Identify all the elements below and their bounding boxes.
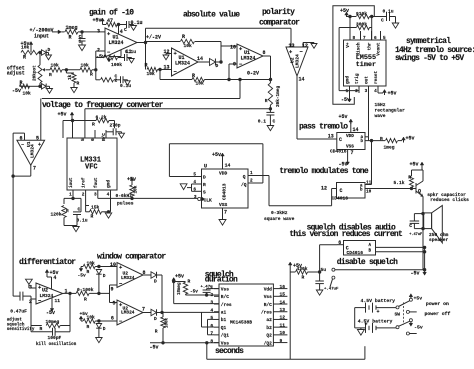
svg-text:+5v: +5v [93, 18, 102, 24]
svg-text:C: C [409, 223, 412, 229]
svg-text:10k: 10k [51, 63, 60, 69]
svg-text:8: 8 [143, 270, 146, 276]
svg-text:duration: duration [205, 275, 238, 284]
svg-text:100pF: 100pF [48, 335, 62, 341]
svg-text:0.1u: 0.1u [125, 49, 136, 55]
svg-text:U: U [204, 164, 207, 170]
svg-text:1: 1 [65, 288, 68, 294]
svg-text:2: 2 [82, 193, 85, 198]
svg-text:-5v: -5v [78, 273, 87, 279]
svg-text:0.1u: 0.1u [77, 218, 88, 224]
svg-text:7: 7 [33, 166, 36, 172]
svg-text:10k: 10k [87, 261, 96, 267]
svg-text:6: 6 [210, 323, 213, 329]
svg-text:270p: 270p [110, 123, 121, 129]
svg-text:D: D [48, 47, 51, 53]
svg-text:Q2: Q2 [266, 333, 272, 339]
svg-text:rectangular: rectangular [375, 107, 406, 113]
svg-text:squelch: squelch [7, 322, 25, 327]
svg-text:R: R [302, 274, 305, 280]
svg-text:0-2V: 0-2V [247, 71, 259, 77]
svg-text:R/C: R/C [221, 294, 229, 300]
svg-text:12: 12 [280, 315, 286, 321]
svg-text:b2: b2 [266, 325, 272, 331]
svg-text:thr: thr [368, 42, 373, 50]
svg-text:D: D [154, 316, 157, 322]
svg-text:gain of -10: gain of -10 [89, 9, 134, 18]
svg-text:+5v: +5v [339, 114, 348, 120]
svg-text:Vss: Vss [221, 286, 229, 292]
svg-text:20kpot: 20kpot [33, 65, 38, 81]
svg-text:10k: 10k [81, 63, 90, 69]
svg-text:C: C [78, 207, 81, 213]
svg-text:trig: trig [355, 73, 360, 84]
svg-text:+5v: +5v [175, 274, 184, 280]
svg-text:12: 12 [321, 186, 327, 192]
svg-text:2: 2 [29, 299, 32, 305]
svg-text:300k: 300k [356, 22, 367, 28]
svg-text:3: 3 [29, 284, 32, 290]
svg-text:13: 13 [163, 65, 169, 71]
svg-text:-5v: -5v [150, 345, 159, 351]
svg-text:2: 2 [355, 89, 358, 94]
svg-text:R: R [77, 81, 80, 87]
svg-text:R: R [380, 136, 383, 142]
svg-text:3: 3 [194, 195, 197, 200]
svg-text:−: − [21, 142, 24, 148]
svg-text:Vss: Vss [221, 340, 229, 346]
svg-text:R: R [203, 182, 206, 188]
svg-text:R/C: R/C [102, 133, 107, 141]
svg-text:13: 13 [328, 133, 334, 139]
svg-text:CD4016: CD4016 [330, 149, 347, 155]
svg-text:0.1u: 0.1u [120, 83, 131, 89]
svg-text:R: R [84, 296, 87, 302]
svg-text:5: 5 [383, 36, 386, 41]
svg-text:square wave: square wave [264, 217, 295, 222]
svg-text:disable squelch: disable squelch [337, 258, 398, 267]
svg-text:R: R [90, 72, 93, 78]
svg-text:11: 11 [366, 181, 372, 186]
svg-text:R: R [87, 324, 90, 330]
svg-text:Vdd: Vdd [264, 286, 272, 292]
svg-text:seconds: seconds [215, 347, 244, 356]
svg-text:10k: 10k [184, 43, 193, 49]
svg-text:C: C [273, 119, 276, 125]
svg-text:+: + [377, 309, 380, 315]
svg-text:LM324: LM324 [241, 56, 256, 62]
svg-text:15k: 15k [91, 205, 100, 211]
svg-text:tremolo modulates tone: tremolo modulates tone [279, 167, 368, 176]
svg-text:C: C [124, 27, 127, 33]
svg-text:R: R [49, 72, 52, 78]
svg-text:R: R [155, 329, 158, 335]
svg-text:power on: power on [426, 302, 449, 307]
svg-text:VDD: VDD [219, 171, 228, 177]
svg-text:/res: /res [221, 302, 232, 308]
svg-text:+: + [365, 322, 368, 328]
svg-text:Vss: Vss [264, 294, 272, 300]
svg-text:4: 4 [120, 29, 123, 35]
svg-text:10meg: 10meg [46, 319, 60, 325]
svg-text:adjust: adjust [7, 71, 25, 77]
svg-text:10k: 10k [87, 315, 96, 321]
svg-text:iout: iout [69, 177, 74, 188]
svg-text:Q: Q [418, 189, 421, 195]
svg-text:8: 8 [353, 36, 356, 41]
svg-text:1meg: 1meg [384, 145, 395, 151]
svg-text:9: 9 [110, 286, 113, 292]
svg-text:MC14538B: MC14538B [230, 319, 252, 325]
svg-text:3: 3 [97, 29, 100, 35]
svg-text:VSS: VSS [219, 202, 228, 208]
svg-text:0.47uF: 0.47uF [10, 308, 27, 314]
svg-text:/Q1: /Q1 [221, 333, 229, 339]
svg-text:+.47uF: +.47uF [409, 233, 422, 237]
svg-text:6: 6 [338, 240, 341, 246]
svg-text:8: 8 [263, 50, 266, 56]
svg-text:D: D [216, 63, 219, 69]
svg-text:window comparator: window comparator [97, 252, 166, 261]
svg-text:9: 9 [233, 62, 236, 68]
svg-text:+5v: +5v [340, 8, 349, 14]
svg-text:adjust: adjust [7, 318, 23, 323]
svg-text:+.47u: +.47u [201, 286, 214, 290]
svg-text:this version reduces current: this version reduces current [289, 230, 403, 239]
svg-text:+5v: +5v [388, 91, 397, 97]
svg-text:VFC: VFC [85, 164, 98, 172]
svg-text:/Q: /Q [241, 182, 247, 188]
svg-text:+/-2V: +/-2V [146, 35, 161, 41]
svg-text:fout: fout [94, 177, 99, 188]
svg-text:CD4016: CD4016 [332, 196, 349, 202]
svg-text:+5v: +5v [58, 112, 67, 118]
svg-text:6: 6 [91, 138, 96, 141]
svg-text:R: R [408, 175, 411, 181]
svg-text:R: R [91, 214, 94, 220]
svg-text:C: C [339, 137, 342, 143]
svg-text:pulses: pulses [117, 201, 134, 207]
svg-text:absolute value: absolute value [183, 11, 240, 20]
svg-text:-5v: -5v [411, 271, 420, 277]
svg-text:3: 3 [210, 300, 213, 306]
svg-text:10: 10 [280, 330, 286, 336]
svg-text:SW: SW [395, 311, 401, 317]
svg-text:/res: /res [261, 310, 272, 316]
svg-text:+5v: +5v [406, 136, 415, 142]
svg-text:10k: 10k [134, 185, 139, 193]
svg-text:120k: 120k [51, 212, 62, 218]
svg-text:VSS: VSS [346, 145, 354, 150]
svg-text:10: 10 [110, 262, 116, 268]
svg-text:1meg: 1meg [66, 25, 78, 31]
svg-text:kill oscillation: kill oscillation [36, 342, 77, 347]
svg-text:gnd: gnd [107, 180, 112, 188]
svg-text:S: S [203, 189, 206, 195]
svg-text:R: R [192, 73, 195, 79]
svg-text:Q: Q [243, 174, 246, 180]
svg-text:0.1: 0.1 [258, 119, 267, 125]
svg-text:pass tremolo: pass tremolo [299, 122, 348, 131]
svg-text:R/C: R/C [264, 302, 272, 308]
svg-text:4: 4 [107, 193, 110, 198]
svg-text:LM324: LM324 [109, 40, 124, 46]
svg-text:1: 1 [250, 171, 253, 176]
svg-text:R: R [20, 80, 23, 86]
svg-text:7: 7 [363, 36, 366, 41]
svg-text:C: C [381, 18, 384, 24]
svg-text:a1: a1 [221, 310, 227, 316]
svg-text:LM324: LM324 [295, 54, 301, 68]
svg-text:wave: wave [375, 114, 386, 119]
svg-text:differentiator: differentiator [19, 258, 76, 267]
svg-text:D: D [103, 273, 106, 279]
svg-text:VDD: VDD [346, 134, 354, 139]
svg-text:gnd: gnd [346, 76, 351, 84]
svg-text:reset: reset [374, 70, 379, 84]
svg-text:1: 1 [79, 39, 82, 45]
svg-text:6.2k: 6.2k [96, 114, 107, 120]
svg-text:10k: 10k [23, 91, 32, 97]
svg-text:D: D [154, 279, 157, 285]
svg-text:R: R [40, 326, 43, 332]
svg-text:swings -5V to +5V: swings -5V to +5V [395, 54, 464, 63]
svg-text:R: R [182, 34, 185, 40]
svg-text:14: 14 [197, 56, 203, 62]
svg-text:a2: a2 [266, 317, 272, 323]
svg-text:timer: timer [356, 61, 376, 69]
svg-text:polarity: polarity [262, 8, 295, 17]
svg-text:+5v: +5v [212, 152, 221, 158]
svg-text:910k: 910k [356, 11, 367, 17]
svg-text:0-6kHz: 0-6kHz [116, 193, 133, 199]
svg-text:5: 5 [210, 315, 213, 321]
svg-text:LM324: LM324 [175, 61, 190, 67]
svg-text:-5v: -5v [46, 310, 55, 316]
svg-text:-5v: -5v [12, 88, 21, 94]
svg-text:4: 4 [53, 275, 56, 281]
svg-text:0.1u: 0.1u [383, 9, 394, 15]
svg-text:R: R [69, 35, 72, 41]
svg-text:R: R [145, 63, 148, 69]
svg-text:6: 6 [374, 36, 377, 41]
svg-text:10k: 10k [21, 45, 30, 51]
svg-text:16: 16 [280, 284, 286, 290]
svg-text:2: 2 [115, 78, 118, 84]
svg-text:+: + [38, 142, 41, 148]
svg-text:11: 11 [280, 322, 286, 328]
svg-text:R: R [265, 98, 268, 104]
svg-text:5.1k: 5.1k [393, 180, 404, 186]
svg-text:5: 5 [81, 138, 86, 141]
svg-text:C: C [340, 188, 343, 194]
svg-text:11: 11 [55, 298, 61, 304]
svg-text:47: 47 [107, 18, 113, 24]
svg-text:R: R [188, 279, 191, 285]
svg-text:LM324: LM324 [121, 275, 135, 281]
svg-text:15Hz: 15Hz [375, 102, 386, 108]
svg-text:R: R [66, 209, 69, 214]
svg-text:D: D [103, 326, 106, 332]
svg-text:+.47uF: +.47uF [324, 288, 339, 292]
svg-text:1k: 1k [68, 74, 73, 80]
svg-text:10k: 10k [196, 81, 205, 87]
svg-text:10: 10 [230, 44, 236, 50]
svg-text:10: 10 [366, 190, 372, 195]
svg-text:LM324: LM324 [30, 144, 36, 158]
svg-text:D: D [203, 175, 206, 181]
svg-text:power off: power off [425, 311, 451, 317]
svg-text:R: R [92, 122, 95, 128]
svg-text:/Q2: /Q2 [264, 340, 272, 346]
svg-text:2: 2 [250, 179, 253, 184]
svg-text:comparator: comparator [259, 19, 300, 28]
svg-text:6: 6 [111, 316, 114, 322]
svg-text:4: 4 [374, 89, 377, 94]
svg-text:0-100k: 0-100k [77, 287, 94, 293]
svg-text:13: 13 [280, 307, 286, 313]
svg-text:+5v: +5v [293, 263, 302, 269]
svg-text:CLK: CLK [204, 197, 213, 203]
svg-text:14: 14 [299, 77, 305, 83]
svg-text:-5v: -5v [190, 290, 198, 295]
svg-text:symmetrical: symmetrical [406, 37, 451, 46]
svg-text:R: R [23, 55, 26, 61]
svg-text:15: 15 [280, 292, 286, 298]
svg-text:10k: 10k [147, 71, 156, 77]
svg-text:14: 14 [353, 127, 359, 133]
svg-text:R: R [87, 269, 90, 275]
svg-text:LM324: LM324 [121, 310, 135, 316]
svg-text:7: 7 [224, 210, 227, 216]
svg-text:7: 7 [142, 307, 145, 313]
svg-text:7: 7 [210, 331, 213, 337]
svg-text:reduces clicks: reduces clicks [430, 197, 469, 203]
svg-text:9: 9 [280, 338, 283, 344]
svg-text:5u: 5u [321, 267, 327, 273]
svg-text:1: 1 [69, 193, 72, 198]
svg-text:V+: V+ [346, 42, 351, 48]
svg-text:6: 6 [19, 135, 22, 141]
svg-text:14: 14 [280, 299, 286, 305]
svg-text:5: 5 [36, 135, 39, 141]
svg-text:7: 7 [351, 150, 354, 156]
svg-text:CD4013: CD4013 [222, 183, 228, 200]
svg-text:4.5V battery: 4.5V battery [358, 318, 393, 324]
svg-text:100k: 100k [165, 317, 170, 328]
svg-text:out: out [365, 76, 370, 84]
svg-text:20k-1meg: 20k-1meg [276, 86, 281, 107]
svg-text:LM324: LM324 [40, 293, 54, 299]
svg-text:14: 14 [225, 162, 231, 168]
svg-text:3: 3 [365, 89, 368, 94]
svg-text:Q1: Q1 [221, 325, 227, 331]
svg-text:5: 5 [112, 301, 115, 307]
svg-text:1: 1 [346, 89, 349, 94]
svg-text:+5v: +5v [414, 296, 423, 302]
svg-text:b1: b1 [221, 317, 227, 323]
svg-text:+5v: +5v [410, 161, 419, 167]
svg-text:0-3kHz: 0-3kHz [271, 210, 288, 216]
svg-text:100k: 100k [111, 62, 122, 68]
svg-text:CD4016: CD4016 [347, 250, 364, 256]
svg-text:3: 3 [94, 193, 97, 198]
svg-text:Vcont: Vcont [377, 42, 382, 56]
svg-text:disch: disch [357, 42, 362, 56]
svg-text:-5v: -5v [414, 324, 423, 330]
svg-text:8: 8 [210, 338, 213, 344]
svg-text:speaker: speaker [429, 237, 449, 243]
svg-text:U2: U2 [42, 288, 48, 294]
svg-text:18meg: 18meg [178, 282, 182, 295]
svg-text:input: input [34, 34, 49, 40]
svg-text:iref: iref [82, 177, 87, 188]
